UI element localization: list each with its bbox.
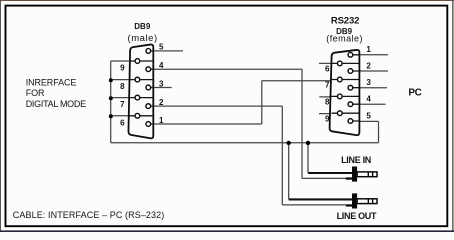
svg-text:9: 9 [120, 64, 125, 73]
svg-text:DB9: DB9 [134, 22, 151, 31]
svg-text:2: 2 [366, 61, 371, 70]
svg-text:LINE OUT: LINE OUT [337, 211, 377, 221]
svg-text:6: 6 [325, 65, 330, 74]
svg-text:8: 8 [325, 98, 330, 107]
svg-text:3: 3 [366, 78, 371, 87]
svg-text:INRERFACE: INRERFACE [26, 77, 77, 87]
svg-text:4: 4 [159, 61, 164, 70]
svg-text:(male): (male) [127, 33, 157, 44]
svg-text:DIGITAL MODE: DIGITAL MODE [26, 99, 86, 109]
svg-text:9: 9 [325, 114, 330, 123]
svg-text:8: 8 [120, 82, 125, 91]
svg-text:(female): (female) [326, 34, 363, 44]
svg-text:5: 5 [159, 43, 164, 52]
svg-text:7: 7 [120, 100, 125, 109]
svg-text:RS232: RS232 [331, 15, 360, 26]
svg-text:6: 6 [120, 118, 125, 127]
svg-text:FOR: FOR [26, 88, 45, 98]
svg-text:3: 3 [159, 79, 164, 88]
svg-text:5: 5 [366, 111, 371, 120]
svg-text:CABLE: INTERFACE – PC (RS–232): CABLE: INTERFACE – PC (RS–232) [13, 210, 165, 220]
svg-text:2: 2 [159, 98, 164, 107]
svg-text:LINE IN: LINE IN [341, 155, 371, 165]
svg-text:7: 7 [325, 81, 330, 90]
svg-text:PC: PC [408, 88, 421, 99]
svg-text:1: 1 [159, 116, 164, 125]
svg-text:4: 4 [366, 95, 371, 104]
svg-text:1: 1 [366, 45, 371, 54]
